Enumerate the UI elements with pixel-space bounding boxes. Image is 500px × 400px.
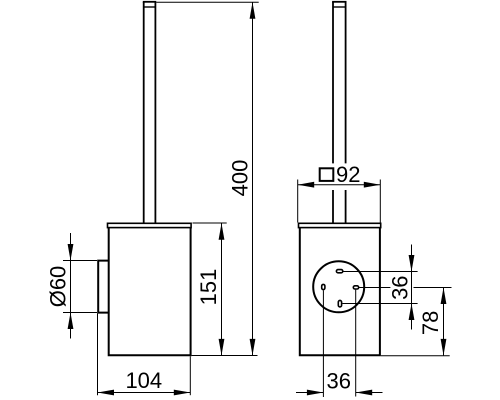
svg-text:Ø60: Ø60 — [46, 266, 71, 308]
svg-text:400: 400 — [228, 160, 253, 197]
svg-text:151: 151 — [196, 269, 221, 306]
svg-text:104: 104 — [125, 368, 162, 393]
svg-text:92: 92 — [336, 162, 360, 187]
svg-text:36: 36 — [327, 368, 351, 393]
svg-text:36: 36 — [388, 275, 413, 299]
svg-text:78: 78 — [418, 311, 443, 335]
